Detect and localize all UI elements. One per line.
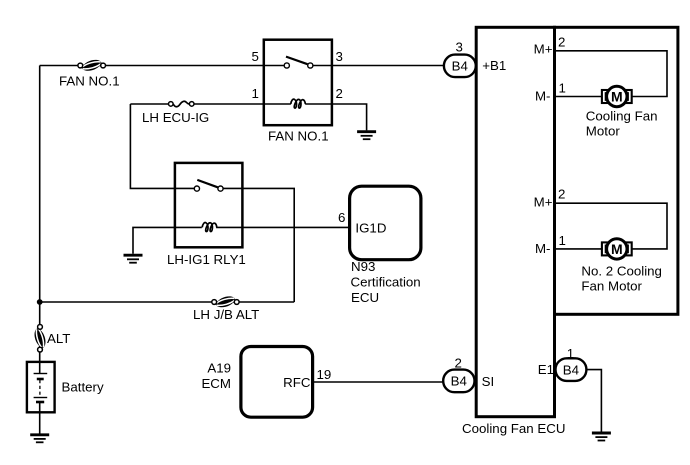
svg-text:M: M	[611, 241, 623, 257]
svg-text:B4: B4	[563, 362, 579, 377]
svg-text:2: 2	[455, 356, 462, 371]
svg-text:Motor: Motor	[586, 124, 621, 139]
wire: bottom LH J/B ALT line	[40, 301, 295, 303]
svg-text:IG1D: IG1D	[355, 221, 386, 236]
svg-text:LH-IG1 RLY1: LH-IG1 RLY1	[167, 252, 246, 267]
fusible link FAN NO.1	[78, 60, 106, 71]
wire: LH-IG1 relay switch out, down to J/B ALT line	[242, 188, 294, 302]
svg-text:2: 2	[558, 187, 565, 202]
svg-text:19: 19	[317, 367, 332, 382]
fan shroud box	[555, 27, 678, 314]
ECM A19 box	[241, 347, 313, 418]
svg-text:FAN NO.1: FAN NO.1	[59, 74, 120, 89]
svg-text:RFC: RFC	[283, 375, 311, 390]
relay FAN NO.1 switch	[264, 57, 332, 69]
wire: LH-IG1 coil left to ground	[133, 227, 175, 253]
svg-text:3: 3	[456, 40, 463, 55]
wire: battery bottom to ground	[39, 402, 41, 434]
svg-text:FAN NO.1: FAN NO.1	[268, 128, 329, 143]
svg-text:A19: A19	[207, 361, 231, 376]
fusible link ALT (vertical)	[35, 325, 46, 353]
svg-text:1: 1	[559, 233, 566, 248]
svg-text:SI: SI	[482, 374, 495, 389]
svg-text:M+: M+	[534, 42, 553, 57]
svg-text:6: 6	[338, 210, 345, 225]
svg-text:B4: B4	[452, 59, 468, 74]
wire: relay pin3 to B4 connector	[332, 65, 444, 67]
svg-text:1: 1	[567, 346, 574, 361]
relay FAN NO.1 coil	[291, 99, 306, 108]
motor M1 Cooling Fan Motor	[602, 86, 632, 106]
wire: motor1 M- lead	[556, 96, 603, 98]
svg-text:2: 2	[558, 34, 565, 49]
svg-text:ECM: ECM	[201, 376, 231, 391]
relay LH-IG1 switch	[175, 180, 243, 191]
ground below relay FAN NO.1 pin 2	[357, 132, 376, 140]
connector B4 +B1	[444, 55, 476, 78]
svg-text:M: M	[611, 89, 623, 105]
wire: left vertical bus from top corner down to battery	[39, 66, 41, 374]
svg-text:1: 1	[559, 81, 566, 96]
svg-text:5: 5	[252, 49, 259, 64]
svg-text:+B1: +B1	[482, 58, 506, 73]
wire: LH-IG1 coil right to IG1D pin 6	[242, 226, 349, 228]
svg-text:No. 2 Cooling: No. 2 Cooling	[581, 264, 662, 279]
wire: vertical drop from LH ECU-IG to LH-IG1 relay	[130, 104, 175, 188]
svg-text:M+: M+	[534, 195, 553, 210]
relay LH-IG1 RLY1 box	[175, 163, 243, 247]
svg-text:E1: E1	[538, 362, 554, 377]
svg-text:LH J/B ALT: LH J/B ALT	[193, 307, 259, 322]
wire: RFC pin19 to B4 SI	[313, 381, 444, 383]
node: junction on battery bus	[37, 299, 43, 305]
svg-text:2: 2	[336, 86, 343, 101]
connector B4 SI	[443, 370, 474, 393]
svg-text:Cooling Fan ECU: Cooling Fan ECU	[462, 421, 565, 436]
svg-text:Certification: Certification	[351, 275, 421, 290]
svg-text:M-: M-	[535, 89, 551, 104]
svg-text:Cooling Fan: Cooling Fan	[586, 109, 658, 124]
wire: coil leads inside FAN NO.1 relay	[264, 103, 291, 105]
wire: motor1 M+ loop	[556, 51, 668, 97]
svg-text:3: 3	[336, 49, 343, 64]
ECU N93 Certification ECU box	[350, 186, 421, 260]
ground below E1	[592, 433, 611, 441]
svg-text:1: 1	[252, 86, 259, 101]
wire: motor2 M- lead	[556, 248, 603, 250]
connector B4 E1	[556, 358, 587, 381]
relay FAN NO.1 box	[264, 40, 332, 126]
svg-text:Fan Motor: Fan Motor	[581, 279, 642, 294]
fusible link LH J/B ALT	[212, 296, 239, 307]
svg-text:B4: B4	[451, 374, 467, 389]
motor M2 No.2 Cooling Fan Motor	[602, 239, 632, 259]
fuse LH ECU-IG	[169, 101, 195, 106]
Cooling Fan ECU box	[476, 27, 554, 416]
svg-text:ECU: ECU	[351, 290, 379, 305]
ground below LH-IG1 coil	[124, 255, 143, 263]
battery B1	[27, 362, 55, 412]
wire: LH ECU-IG feed to relay pin1	[130, 103, 170, 105]
wire: coil leads inside LH-IG1 relay	[175, 226, 202, 228]
svg-text:LH ECU-IG: LH ECU-IG	[142, 110, 209, 125]
svg-text:ALT: ALT	[47, 331, 70, 346]
relay LH-IG1 coil	[202, 223, 217, 232]
wire: relay pin2 to ground	[332, 104, 367, 130]
wire: E1 to ground	[586, 370, 601, 432]
svg-text:M-: M-	[535, 241, 551, 256]
wire: top horizontal to FAN NO.1 relay	[40, 65, 264, 67]
ground below battery	[30, 435, 49, 443]
svg-text:Battery: Battery	[62, 380, 104, 395]
svg-text:N93: N93	[351, 259, 375, 274]
wire: motor2 M+ loop	[556, 203, 668, 249]
